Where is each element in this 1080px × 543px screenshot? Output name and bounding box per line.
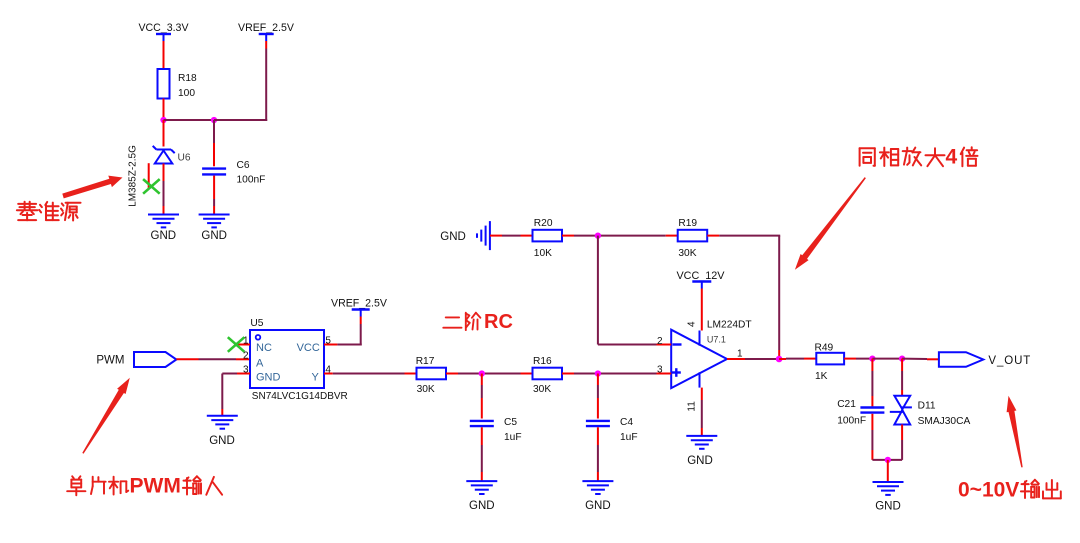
wire [163,120,165,147]
pin 1 output wire [727,349,779,360]
annotation arrow [82,378,130,454]
wire [598,236,671,345]
wire [490,235,533,237]
svg-text:100nF: 100nF [837,416,866,427]
resistor R16 [533,356,563,395]
svg-text:R20: R20 [534,218,553,229]
ground GND [207,416,238,429]
port PWM [96,352,176,367]
svg-text:V_OUT: V_OUT [988,355,1031,367]
resistor R20 [533,218,563,259]
wire [337,317,361,346]
port V_OUT [939,352,1031,367]
wire [164,119,215,121]
wire [597,427,599,481]
svg-text:100nF: 100nF [237,175,266,186]
error marker [148,163,150,189]
svg-text:1uF: 1uF [620,432,638,443]
annotation arrow [62,176,122,199]
svg-text:PWM: PWM [130,475,181,498]
node junction [479,370,485,376]
wire [163,41,165,69]
svg-text:D11: D11 [918,401,936,412]
wire [176,358,250,360]
svg-text:4: 4 [946,146,958,169]
svg-text:GND: GND [151,230,177,242]
annotation arrow [795,177,866,270]
wire [872,358,902,360]
wire [707,236,780,359]
annotation text 基准源 [17,202,81,221]
svg-text:3: 3 [657,365,663,376]
svg-text:LM385Z-2.5G: LM385Z-2.5G [128,145,139,207]
svg-text:VCC: VCC [297,342,320,354]
inverter U5 [250,318,348,402]
ground GND [148,215,179,228]
wire [901,359,903,396]
svg-text:SN74LVC1G14DBVR: SN74LVC1G14DBVR [252,391,348,402]
wire [214,119,267,121]
zener diode U6 [153,146,191,164]
pin 3 [657,365,672,376]
svg-text:R18: R18 [178,73,197,84]
node junction [899,355,905,361]
svg-text:30K: 30K [417,384,435,395]
ground GND [466,481,497,494]
svg-text:5: 5 [325,336,331,347]
wire [446,373,521,375]
svg-text:VREF_2.5V: VREF_2.5V [331,298,388,310]
wire [701,289,703,331]
svg-text:PWM: PWM [96,355,124,367]
wire [521,373,533,375]
wire [901,425,903,460]
resistor R18 [158,69,198,99]
power symbol VREF_2.5V [238,22,295,41]
svg-text:A: A [256,357,264,369]
wire [562,373,657,375]
svg-text:30K: 30K [533,384,551,395]
wire [597,374,599,419]
svg-text:4: 4 [325,365,331,376]
pin 1 NC [238,336,272,355]
svg-text:SMAJ30CA: SMAJ30CA [918,416,971,427]
node junction [869,355,875,361]
svg-text:30K: 30K [678,248,696,259]
no-ERC marker green X [143,179,160,194]
svg-text:2: 2 [243,351,249,362]
annotation text 二阶RC [443,311,513,333]
svg-text:R16: R16 [533,356,552,367]
svg-text:GND: GND [585,500,611,512]
wire [333,373,417,375]
svg-text:VREF_2.5V: VREF_2.5V [238,22,295,34]
wire [902,358,939,361]
annotation text 单片机PWM输入 [67,475,222,498]
node junction [595,232,601,238]
ground GND [582,481,613,494]
TVS diode D11 [890,396,971,427]
pin 4 Y [312,365,333,384]
svg-text:1uF: 1uF [504,432,522,443]
wire [562,235,666,237]
svg-text:U5: U5 [250,318,263,329]
svg-text:GND: GND [469,500,495,512]
node junction [160,117,166,123]
node junction [776,356,783,363]
svg-text:0~10V: 0~10V [958,479,1019,502]
svg-text:GND: GND [201,230,227,242]
power symbol VCC_12V [676,270,725,289]
capacitor C4 [586,417,638,443]
svg-text:GND: GND [687,455,713,467]
op-amp U7.1 LM224DT [671,320,751,389]
node junction [595,370,601,376]
wire [871,359,873,407]
power symbol VREF_2.5V [331,298,388,317]
node junction [211,117,217,123]
resistor R49 [815,343,845,383]
wire [844,358,872,360]
annotation text 0~10V输出 [958,479,1061,502]
wire [481,427,483,481]
capacitor C5 [470,417,522,443]
svg-text:2: 2 [657,336,663,347]
svg-text:Y: Y [312,371,320,383]
wire [213,176,215,215]
wire [213,120,215,166]
svg-text:VCC_3.3V: VCC_3.3V [138,22,189,34]
svg-text:C4: C4 [620,417,633,428]
wire [779,358,816,360]
wire [163,99,165,121]
ground GND [873,482,904,495]
svg-text:GND: GND [256,371,281,383]
svg-text:1K: 1K [815,371,828,382]
svg-text:GND: GND [209,435,235,447]
port GND [440,221,490,250]
svg-text:C6: C6 [237,160,250,171]
power symbol VCC_3.3V [138,22,189,41]
svg-text:R17: R17 [416,356,435,367]
svg-text:U6: U6 [178,153,191,164]
svg-text:10K: 10K [534,248,552,259]
resistor R17 [416,356,446,395]
capacitor C6 [202,160,265,186]
resistor R19 [678,218,708,259]
svg-text:3: 3 [243,365,249,376]
ground GND [199,215,230,228]
svg-text:C21: C21 [837,399,856,410]
svg-text:4: 4 [686,321,697,327]
svg-text:1: 1 [737,349,743,360]
wire [265,41,267,121]
svg-text:C5: C5 [504,417,517,428]
pin 3 GND [237,365,281,384]
pin 5 VCC [297,336,338,355]
annotation text 同相放大4倍 [860,146,978,169]
capacitor C21 [837,399,884,427]
svg-text:GND: GND [440,231,466,243]
no-ERC marker green X [228,337,245,352]
pin 2 A [243,351,264,370]
svg-text:NC: NC [256,342,272,354]
wire [887,460,889,482]
svg-text:11: 11 [686,401,697,412]
wire [666,235,678,237]
svg-text:R49: R49 [815,343,834,354]
wire [872,459,902,461]
svg-text:U7.1: U7.1 [707,335,726,345]
svg-text:LM224DT: LM224DT [707,320,752,331]
wire [163,164,165,215]
wire [701,388,703,436]
ground GND [686,436,717,449]
svg-text:VCC_12V: VCC_12V [676,270,725,282]
wire [481,374,483,419]
svg-text:100: 100 [178,88,195,99]
svg-text:GND: GND [875,501,901,513]
pin 2 [657,336,672,347]
annotation arrow [1007,396,1023,468]
wire [871,414,873,460]
svg-text:RC: RC [484,311,513,333]
node junction [885,457,891,463]
svg-text:R19: R19 [678,218,697,229]
wire [222,374,237,416]
